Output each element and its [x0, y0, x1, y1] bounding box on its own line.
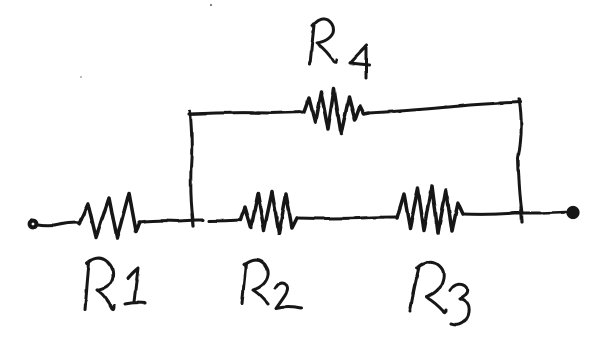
wire	[541, 212, 566, 213]
label R3	[410, 262, 469, 325]
resistor R1	[79, 193, 140, 238]
wire (top branch, left section)	[189, 112, 304, 114]
label R2	[242, 260, 301, 308]
label R1	[85, 258, 145, 310]
wire (right vertical of top branch)	[518, 99, 522, 213]
node A	[192, 214, 193, 226]
stray speck top	[210, 4, 212, 6]
wire (top branch, right section)	[369, 102, 520, 113]
wire	[139, 220, 197, 222]
terminal node right	[568, 208, 578, 218]
terminal node left	[30, 221, 37, 228]
resistor R4	[304, 89, 369, 134]
wire (left vertical of top branch)	[190, 111, 193, 220]
resistor R3	[397, 186, 463, 233]
resistor R2	[241, 192, 297, 233]
node B	[521, 207, 522, 222]
wire	[38, 223, 80, 226]
wire	[297, 217, 397, 219]
stray speck left	[80, 76, 82, 78]
wire	[197, 220, 241, 221]
label R4	[310, 19, 369, 78]
wire	[463, 213, 541, 214]
